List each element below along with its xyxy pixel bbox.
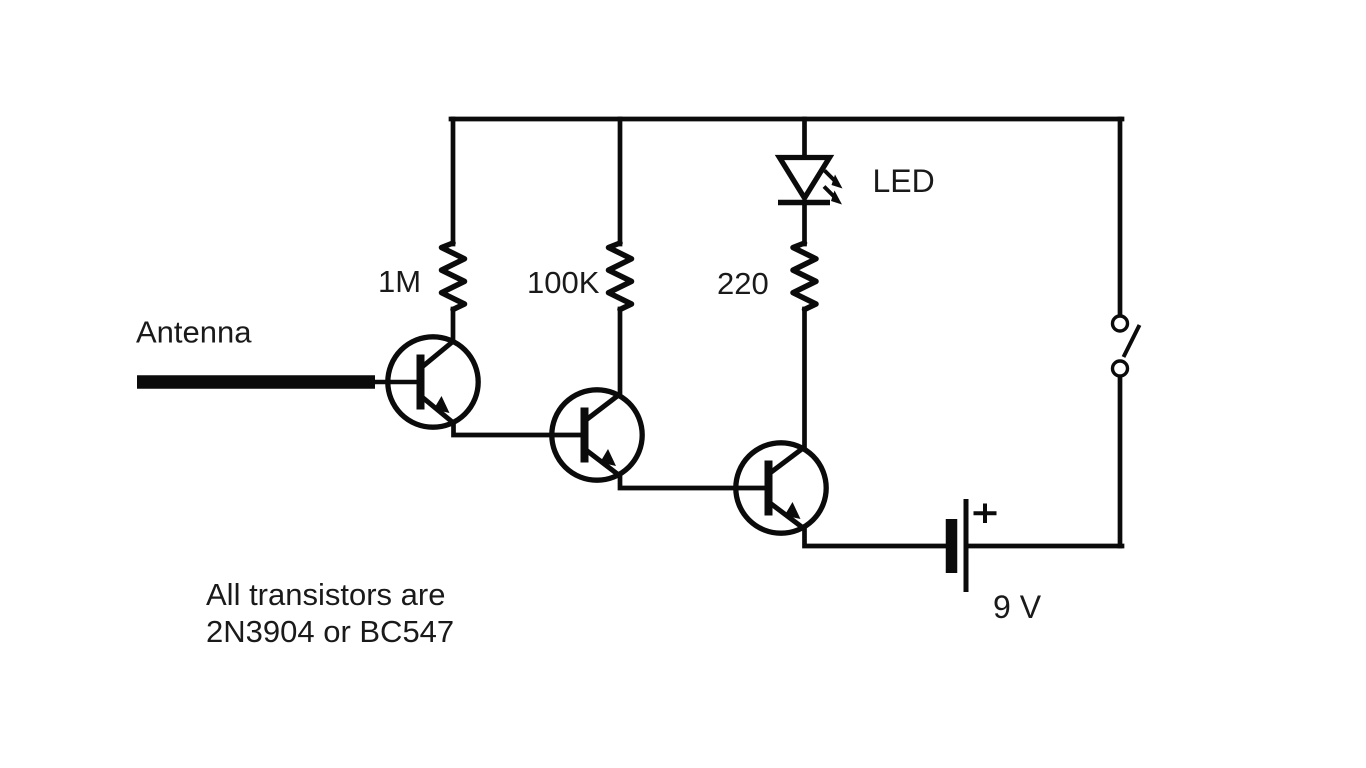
wire Q1 emitter to Q2 base [454,424,586,435]
wire 1M resistor to Q1 collector [451,309,456,340]
wire 220 resistor to Q3 collector [802,309,807,446]
svg-text:220: 220 [717,266,769,301]
wire 1M branch top [451,119,456,244]
resistor R2 100K [609,243,632,310]
antenna lead-in [137,375,420,389]
svg-text:100K: 100K [527,265,600,300]
svg-text:Antenna: Antenna [136,315,252,350]
LED D1 [778,158,843,205]
svg-text:1M: 1M [378,264,421,299]
wire 100K resistor to Q2 collector [618,309,623,393]
wire battery plus to right rail [966,544,1122,549]
svg-text:2N3904 or BC547: 2N3904 or BC547 [206,614,454,649]
switch S1 [1113,316,1140,376]
wire right rail lower [1118,377,1123,546]
wire LED to 220 resistor [802,203,807,244]
wire right rail upper [1118,119,1123,315]
svg-text:LED: LED [873,163,935,199]
wire LED branch top [802,119,807,159]
battery B1 9V [952,499,997,592]
wire top rail [451,117,1122,122]
svg-text:9 V: 9 V [993,589,1042,625]
wire Q2 emitter to Q3 base [620,477,769,488]
resistor R1 1M [442,243,465,310]
wire Q3 emitter to battery minus [805,530,947,546]
transistor Q1 [388,337,478,427]
transistor Q3 [736,443,826,533]
transistor Q2 [552,390,642,480]
svg-text:All transistors are: All transistors are [206,577,445,612]
wire 100K branch top [618,119,623,244]
resistor R3 220 [793,243,816,310]
